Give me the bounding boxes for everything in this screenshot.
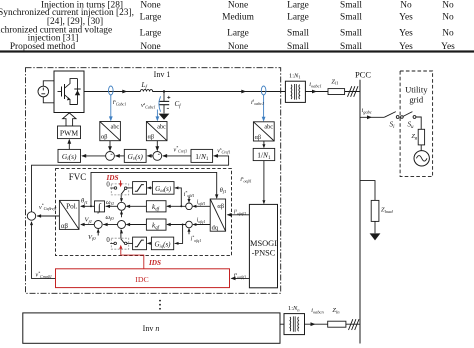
node d-error junction xyxy=(180,205,182,207)
IDS switch 1 xyxy=(111,184,128,195)
summer omega xyxy=(118,202,126,210)
saturation block 2 xyxy=(133,237,147,250)
svg-text:No: No xyxy=(400,0,412,10)
DC source V1 xyxy=(38,81,54,103)
wire: i_Cabc1 measurement xyxy=(110,94,112,119)
block k_df xyxy=(146,201,166,212)
impedance Zload xyxy=(371,200,379,221)
svg-text:Small: Small xyxy=(340,13,362,23)
table bottom rule xyxy=(0,50,474,52)
abc/alphabeta block 1 xyxy=(100,122,121,141)
wire: inverter output bus to PCC xyxy=(84,91,360,93)
transformer T1 1:N1 xyxy=(285,81,305,102)
wire: 1/N1 to MSOGI xyxy=(263,161,265,204)
svg-text:IDC: IDC xyxy=(135,275,148,284)
wire: Pol output to summer xyxy=(37,215,59,217)
wire: k_qf to V summer B xyxy=(127,224,147,226)
wire: theta branch to ab/dq xyxy=(91,172,217,206)
wire: IDS switch 1 to omega summer xyxy=(120,194,122,201)
block Giq(s) xyxy=(151,237,173,250)
svg-text:Inv n: Inv n xyxy=(143,324,160,333)
svg-text:αβ: αβ xyxy=(61,223,69,230)
IDS control arrow 1 (red) xyxy=(120,181,122,185)
ground (filter) xyxy=(159,114,170,120)
capacitor Cf xyxy=(159,92,171,114)
wire: omega_f0 stub xyxy=(121,211,123,217)
wire: S2 to Gv xyxy=(148,155,153,157)
impedance Zln xyxy=(328,321,346,327)
wire: abc3 to 1/N1 xyxy=(263,141,265,147)
wire: VB to VA xyxy=(103,224,117,226)
summer S1 xyxy=(106,152,115,161)
voltage sensor v_Cabc1 (brace) xyxy=(159,96,161,111)
svg-text:Yes: Yes xyxy=(399,13,413,23)
wire: feeder n xyxy=(305,323,361,325)
wire: i_ofd0 ref stub xyxy=(188,197,190,202)
block Pol/alphabeta (polar to ab) xyxy=(59,200,79,229)
wire: Giq to saturation 2 xyxy=(147,242,151,244)
svg-text:Large: Large xyxy=(140,13,162,23)
wire: ab/dq q out to summer xyxy=(193,224,210,226)
svg-text:None: None xyxy=(140,0,160,10)
integrator block xyxy=(95,201,105,212)
wire: abc1 to S1 xyxy=(109,141,111,151)
table row 2 xyxy=(0,8,454,27)
svg-text:iofd1: iofd1 xyxy=(197,199,206,205)
wire: saturation to switch xyxy=(127,187,133,189)
svg-text:Pol.: Pol. xyxy=(66,202,78,210)
wire: Gi to PWM xyxy=(68,141,70,150)
wire: IDC out to summer xyxy=(32,222,56,278)
svg-text:Gid(s): Gid(s) xyxy=(155,185,172,193)
svg-text:IDS: IDS xyxy=(148,259,161,267)
svg-text:PWM: PWM xyxy=(60,129,78,138)
summer S2 xyxy=(153,152,162,161)
svg-text:None: None xyxy=(228,0,248,10)
wire: 1/N1 to S2 xyxy=(163,155,191,157)
svg-text:grid: grid xyxy=(409,95,424,105)
wire: PCC bus xyxy=(359,80,361,344)
IDS control path 2 (red) xyxy=(121,247,144,269)
summer vref (left) xyxy=(27,212,35,220)
svg-text:0: 0 xyxy=(106,182,110,189)
wire: V summer A to Pol xyxy=(81,224,94,226)
wire: k_df to omega summer xyxy=(127,205,147,207)
svg-text:iofq1: iofq1 xyxy=(197,218,206,224)
ground (load) xyxy=(370,233,381,240)
svg-text:FVC: FVC xyxy=(69,172,87,182)
node q-error junction xyxy=(182,224,184,226)
svg-text:abc: abc xyxy=(157,123,166,130)
continuation dots xyxy=(159,300,161,310)
svg-text:abc: abc xyxy=(111,123,120,130)
svg-text:No: No xyxy=(442,28,454,38)
wire: S1 to Gi xyxy=(82,155,106,157)
svg-text:Large: Large xyxy=(227,28,249,38)
svg-text:Large: Large xyxy=(287,13,309,23)
svg-text:-PNSC: -PNSC xyxy=(252,249,276,258)
wire: d-error to k_df xyxy=(167,205,186,207)
svg-text:αβ: αβ xyxy=(255,134,261,141)
saturation block 1 xyxy=(133,182,147,195)
svg-text:αβ: αβ xyxy=(148,134,154,141)
current sensor i_Cabc1 xyxy=(109,86,114,95)
block alphabeta/dq xyxy=(210,199,225,231)
table row 3 xyxy=(0,26,454,44)
abc/alphabeta block 3 xyxy=(253,122,274,141)
IDS switch 2 xyxy=(111,238,128,249)
svg-text:Small: Small xyxy=(340,28,362,38)
wire: integrator to Pol (theta_f1) xyxy=(81,205,95,207)
block 1/N1 (current meas) xyxy=(253,148,275,160)
wire: q-error branch to Giq xyxy=(175,225,183,244)
wire: IDS switch 2 to V summer B xyxy=(120,230,122,239)
hatch marks feeder n xyxy=(349,319,360,330)
block MSOGI-PNSC xyxy=(249,204,277,287)
svg-text:abc: abc xyxy=(264,124,273,131)
node theta junction xyxy=(90,205,92,207)
wire: saturation 2 to switch 2 xyxy=(127,242,133,244)
wire: Gv to S1 xyxy=(116,155,125,157)
wire: abc2 to S2 xyxy=(156,141,158,151)
svg-text:Large: Large xyxy=(287,0,309,10)
inductor Lf xyxy=(140,90,152,92)
svg-text:Small: Small xyxy=(287,28,309,38)
svg-text:Gi(s): Gi(s) xyxy=(62,152,77,162)
utility grid dashed border xyxy=(400,71,433,177)
svg-text:αβ: αβ xyxy=(101,134,107,141)
svg-text:dq: dq xyxy=(212,225,219,232)
svg-text:Inv 1: Inv 1 xyxy=(154,70,171,79)
summer V A xyxy=(94,221,102,229)
AC source grid xyxy=(414,151,429,166)
svg-text:Medium: Medium xyxy=(222,13,254,23)
svg-text:αβ: αβ xyxy=(217,203,224,210)
svg-text:MSOGI: MSOGI xyxy=(250,239,277,248)
svg-text:ioabcn: ioabcn xyxy=(311,308,324,314)
wire: Inv n output xyxy=(280,323,284,325)
svg-text:No: No xyxy=(442,0,454,10)
wire: V_f0 stub xyxy=(97,229,99,235)
wire: q-error to k_qf xyxy=(167,224,186,226)
impedance Zg xyxy=(418,129,424,145)
block 1/N1 (voltage ref) xyxy=(191,149,213,162)
wire: i_oabc1 measurement xyxy=(263,94,265,120)
node: filter cap junction xyxy=(163,90,165,92)
summer q-error xyxy=(186,221,193,228)
wire: v_Cabc1 measurement xyxy=(156,110,158,120)
table row 1 xyxy=(41,0,454,10)
wire: Gid to saturation xyxy=(147,187,152,189)
FVC dashed border xyxy=(56,169,232,256)
inverter bridge (IGBT + diode) xyxy=(54,71,84,113)
PWM drive block-arrow xyxy=(63,113,76,126)
wire: d-error branch to Gid xyxy=(175,188,181,206)
block k_qf xyxy=(146,219,166,230)
wire: omega sum to integrator xyxy=(106,205,118,207)
svg-text:IDS: IDS xyxy=(106,174,119,182)
current sensor i_oabc1 xyxy=(261,86,266,95)
svg-text:Gv(s): Gv(s) xyxy=(128,152,144,162)
switch Su xyxy=(401,112,422,130)
table row 4 xyxy=(10,42,455,52)
svg-text:Yes: Yes xyxy=(399,28,413,38)
wire: ab/dq d out to summer xyxy=(193,205,210,207)
block Gid(s) xyxy=(152,182,174,195)
switch Si xyxy=(384,112,399,119)
svg-text:Large: Large xyxy=(140,28,162,38)
wire: MSOGI to ab/dq xyxy=(228,214,250,216)
hatch marks feeder 1 xyxy=(348,86,359,97)
wire: i_ofq0 ref stub xyxy=(188,229,190,235)
block IDC (red) xyxy=(56,269,230,288)
Inv 1 outer dash-dot border xyxy=(26,68,281,294)
svg-text:0: 0 xyxy=(106,237,110,244)
svg-text:No: No xyxy=(442,13,454,23)
abc/alphabeta block 2 xyxy=(146,122,167,141)
Inv n block xyxy=(23,313,280,343)
summer d-error xyxy=(186,203,193,210)
block Gi(s) xyxy=(58,149,81,162)
wire: MSOGI to IDC xyxy=(231,277,249,279)
svg-text:Utility: Utility xyxy=(405,85,428,95)
transformer Tn 1:Nn xyxy=(284,314,305,335)
PWM block xyxy=(58,126,81,139)
wire: load branch xyxy=(360,181,375,201)
wire: vCref feedback into 1/N1 xyxy=(32,156,229,212)
block Gv(s) xyxy=(124,149,146,162)
svg-text:Small: Small xyxy=(340,0,362,10)
svg-text:Giq(s): Giq(s) xyxy=(154,240,171,248)
impedance Zl1 xyxy=(328,89,345,95)
svg-text:PCC: PCC xyxy=(355,70,371,80)
wire: grid branch i_gabc xyxy=(360,116,384,118)
wire: Zg to source xyxy=(420,145,422,151)
summer V B xyxy=(118,221,126,229)
